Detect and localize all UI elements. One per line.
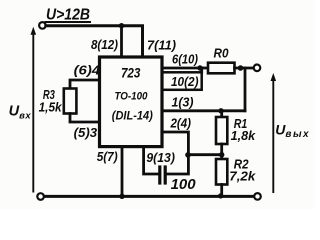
wire pin 2(4) xyxy=(162,132,188,155)
output - terminal xyxy=(254,193,261,200)
svg-text:9(13): 9(13) xyxy=(146,151,175,165)
svg-text:(DIL-14): (DIL-14) xyxy=(112,109,153,123)
svg-text:1,8k: 1,8k xyxy=(231,129,257,143)
resistor R0 body xyxy=(208,63,235,74)
wire pin 5(7) to bottom rail xyxy=(121,147,124,197)
node junction bottom rail at R2 xyxy=(218,193,223,198)
wire feedback vertical from output node xyxy=(244,68,247,111)
svg-text:7,2k: 7,2k xyxy=(229,169,256,183)
svg-text:1(3): 1(3) xyxy=(172,95,194,109)
svg-text:U>12В: U>12В xyxy=(46,6,90,23)
wire pin 6(10) to R0 xyxy=(162,67,208,70)
capacitor C1 left plate xyxy=(158,167,161,183)
node junction bottom rail at 5(7) xyxy=(119,194,124,199)
wire pin 9(13) drop to capacitor xyxy=(144,147,159,174)
svg-text:(5)3: (5)3 xyxy=(74,126,98,140)
svg-text:6(10): 6(10) xyxy=(172,53,198,67)
wire 10(2) riser xyxy=(200,68,203,72)
svg-text:10(2): 10(2) xyxy=(171,75,199,89)
resistor R1 body xyxy=(216,117,227,144)
wire R1 to R2 xyxy=(220,144,223,159)
svg-text:7(11): 7(11) xyxy=(147,39,176,53)
node junction output xyxy=(238,65,244,71)
svg-text:R0: R0 xyxy=(214,46,230,61)
node junction top rail xyxy=(119,23,124,28)
node Uout arrow head xyxy=(271,73,277,81)
wire R3 bottom to pin (5)3 xyxy=(70,114,100,123)
wire pin 1(3) xyxy=(162,109,245,112)
node junction at 10(2) riser xyxy=(197,65,202,70)
svg-text:TO-100: TO-100 xyxy=(115,91,149,103)
node junction 2(4) xyxy=(185,152,191,158)
svg-text:8(12): 8(12) xyxy=(91,38,118,52)
svg-text:1,5k: 1,5k xyxy=(39,101,63,115)
resistor R2 body xyxy=(216,159,227,185)
wire R1 top stub xyxy=(220,111,223,117)
svg-text:100: 100 xyxy=(171,176,197,193)
wire R2 bottom xyxy=(220,185,223,197)
node junction divider mid xyxy=(219,152,224,157)
wire bottom rail xyxy=(44,195,254,198)
wire pin 8(12) drop xyxy=(120,26,123,57)
wire Uin measure line xyxy=(32,32,34,192)
svg-text:723: 723 xyxy=(121,66,141,81)
wire top rail xyxy=(46,26,143,57)
op-amp U1 IC 723 body xyxy=(100,57,163,147)
wire divider mid to 2(4) node xyxy=(188,153,221,156)
wire U>12V underline xyxy=(45,21,92,23)
wire R0 to output terminal xyxy=(235,67,254,70)
wire pin 10(2) loop box xyxy=(162,72,202,90)
wire pin (6)4 to R3 top xyxy=(70,80,100,89)
wire capacitor to node 2(4) xyxy=(167,155,189,174)
wire Uout measure line xyxy=(272,77,274,192)
svg-text:(6)4: (6)4 xyxy=(74,63,101,77)
svg-text:2(4): 2(4) xyxy=(170,116,191,130)
capacitor C1 right plate xyxy=(164,167,167,183)
input - terminal xyxy=(37,193,44,200)
node Uin arrow head xyxy=(31,27,37,35)
resistor R3 body xyxy=(64,89,77,114)
input + terminal xyxy=(39,22,46,29)
output + terminal xyxy=(254,65,261,72)
node junction R1 top xyxy=(218,108,223,113)
svg-text:5(7): 5(7) xyxy=(97,150,118,164)
